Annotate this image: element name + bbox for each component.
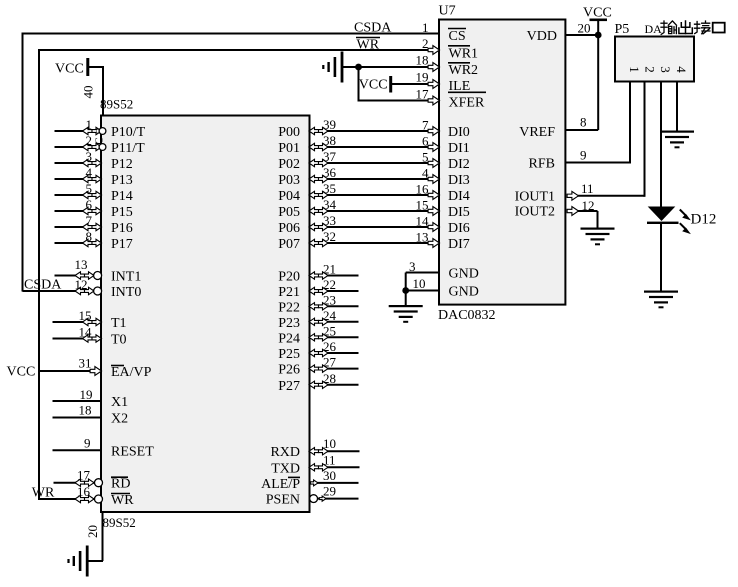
pin 3 of P5 (rotated number)	[658, 66, 673, 73]
svg-text:VCC: VCC	[583, 6, 612, 21]
svg-text:19: 19	[80, 387, 93, 402]
connector P5 body	[615, 37, 694, 82]
pin 20 of U2 to ground	[88, 512, 103, 561]
svg-text:DI0: DI0	[448, 125, 470, 140]
IC U2 89S52 body	[101, 116, 310, 513]
pin 19 ILE of U7	[416, 70, 471, 95]
pin 30 ALE/P of U2	[261, 468, 358, 492]
pin DI6 of U7	[428, 221, 470, 236]
pin 18 WR2 of U7	[416, 53, 479, 79]
svg-text:P21: P21	[278, 285, 300, 300]
pin 16 WR of U2	[39, 484, 134, 508]
svg-text:5: 5	[86, 181, 93, 196]
pin 28 P27 of U2	[278, 371, 358, 394]
label WR (top, overlined)	[356, 38, 380, 53]
svg-text:17: 17	[77, 468, 91, 483]
svg-text:34: 34	[323, 197, 337, 212]
pin 34 P05 of U2 / wire to DAC DI5	[278, 197, 439, 220]
svg-text:4: 4	[674, 66, 689, 73]
pin 11 TXD of U2	[271, 452, 359, 476]
svg-text:38: 38	[323, 133, 336, 148]
svg-text:X2: X2	[111, 412, 128, 427]
pin 17 RD of U2	[54, 468, 131, 492]
wire diode to ground	[660, 224, 662, 292]
pin 10 GND of U7	[406, 276, 479, 300]
svg-text:4: 4	[86, 165, 93, 180]
rotated artifact glyphs near pins 1-2	[94, 128, 107, 151]
svg-text:P06: P06	[278, 221, 300, 236]
pin DI1 of U7	[428, 141, 470, 156]
junction (WR2 net)	[355, 64, 362, 71]
svg-text:20: 20	[85, 525, 100, 538]
power VCC (ILE)	[359, 76, 392, 93]
ground (U7 GND)	[389, 305, 423, 323]
pin 38 P01 of U2 / wire to DAC DI1	[278, 133, 439, 156]
svg-text:P24: P24	[278, 331, 300, 346]
pin 8 VREF of U7	[519, 115, 598, 141]
svg-text:P26: P26	[278, 363, 300, 378]
pin 5 P14 of U2	[55, 181, 133, 204]
wire WR net (left vertical)	[38, 49, 40, 500]
svg-text:P27: P27	[278, 379, 300, 394]
label DAC0832	[438, 308, 496, 323]
label D12	[691, 212, 717, 228]
svg-text:P11/T: P11/T	[111, 141, 145, 156]
svg-text:5: 5	[422, 150, 429, 165]
svg-text:2: 2	[422, 36, 429, 51]
svg-text:11: 11	[581, 181, 594, 196]
ground (D12)	[644, 291, 678, 309]
svg-text:RESET: RESET	[111, 444, 154, 459]
svg-text:26: 26	[323, 339, 337, 354]
pin 21 P20 of U2	[278, 262, 358, 285]
pin 33 P06 of U2 / wire to DAC DI6	[278, 213, 439, 236]
svg-text:1: 1	[627, 66, 642, 73]
svg-text:PSEN: PSEN	[266, 493, 300, 508]
svg-text:P5: P5	[615, 22, 630, 37]
svg-text:18: 18	[79, 403, 92, 418]
svg-text:DI2: DI2	[448, 157, 470, 172]
svg-text:P04: P04	[278, 189, 300, 204]
pin 13 INT1 of U2	[55, 257, 142, 285]
LED D12	[647, 207, 679, 225]
ground (pin 20)	[67, 546, 88, 577]
pin 12 IOUT2 of U7	[515, 198, 598, 220]
pin 3 GND of U7	[406, 259, 479, 282]
svg-text:3: 3	[658, 66, 673, 73]
label 89S52 (top)	[100, 97, 133, 112]
label CSDA (left)	[24, 278, 62, 293]
svg-text:11: 11	[323, 452, 336, 467]
pin 6 P15 of U2	[55, 197, 133, 220]
pin 39 P00 of U2 / wire to DAC DI0	[278, 117, 439, 140]
svg-text:9: 9	[84, 435, 91, 450]
svg-text:40: 40	[81, 86, 96, 99]
pin number 20 (rotated)	[85, 525, 100, 538]
pin DI3 of U7	[428, 173, 470, 188]
wire CSDA net (top horizontal to DAC CS)	[23, 33, 440, 35]
svg-text:33: 33	[323, 213, 336, 228]
pin 24 P23 of U2	[278, 308, 358, 331]
svg-text:P10/T: P10/T	[111, 125, 146, 140]
svg-text:T0: T0	[111, 333, 127, 348]
label CSDA (top)	[354, 21, 392, 36]
svg-text:32: 32	[323, 229, 336, 244]
svg-text:17: 17	[416, 87, 430, 102]
pin 8 P17 of U2	[55, 229, 133, 252]
pin 9 RFB of U7	[529, 148, 630, 172]
pin 31 EA/VP of U2	[39, 356, 152, 381]
pin 1 of P5 (rotated number)	[627, 66, 642, 73]
pin 9 RESET of U2	[53, 435, 155, 459]
pin DI2 of U7	[428, 157, 470, 172]
pin DI4 of U7	[428, 189, 470, 204]
wire IOUT2 to ground	[597, 211, 599, 229]
svg-text:VCC: VCC	[359, 78, 388, 93]
wire ILE to VCC	[392, 83, 439, 85]
wire GND pins to ground	[405, 273, 407, 307]
svg-text:25: 25	[323, 323, 336, 338]
svg-text:WR: WR	[111, 493, 134, 508]
label WR (bottom left)	[32, 486, 55, 501]
pin 26 P25 of U2	[278, 339, 358, 362]
svg-text:P03: P03	[278, 173, 300, 188]
svg-text:IOUT1: IOUT1	[515, 190, 555, 205]
svg-text:GND: GND	[449, 267, 479, 282]
svg-text:IOUT2: IOUT2	[515, 205, 555, 220]
pin 2 of P5 (rotated number)	[643, 66, 658, 73]
wire P5 pin3 to diode	[660, 82, 662, 208]
pin 25 P24 of U2	[278, 323, 358, 346]
pin 19 X1 of U2	[53, 387, 129, 410]
svg-text:10: 10	[323, 436, 336, 451]
svg-text:RD: RD	[111, 477, 130, 492]
label DA	[645, 22, 663, 36]
ground (WR2/XFER)	[322, 52, 343, 83]
wire WR net (top horizontal to DAC WR1)	[39, 49, 439, 51]
svg-text:VCC: VCC	[7, 365, 36, 380]
svg-text:T1: T1	[111, 316, 127, 331]
power VCC (VDD/VREF)	[583, 6, 612, 131]
svg-text:DI4: DI4	[448, 189, 470, 204]
svg-text:6: 6	[86, 197, 93, 212]
label U7	[439, 4, 456, 19]
svg-text:D12: D12	[691, 212, 717, 228]
pin 11 IOUT1 of U7	[515, 181, 645, 205]
svg-text:INT0: INT0	[111, 285, 141, 300]
pin 4 of P5 (rotated number)	[674, 66, 689, 73]
pin 27 P26 of U2	[278, 355, 358, 378]
svg-text:30: 30	[323, 468, 336, 483]
pin 35 P04 of U2 / wire to DAC DI4	[278, 181, 439, 204]
pin DI7 of U7	[428, 237, 470, 252]
wire WR2/XFER net	[343, 67, 439, 102]
pin 3 P12 of U2	[55, 149, 133, 172]
pin 20 VDD of U7	[527, 21, 599, 45]
svg-text:WR1: WR1	[449, 47, 479, 62]
svg-text:1: 1	[86, 117, 93, 132]
svg-text:P01: P01	[278, 141, 300, 156]
pin 7 P16 of U2	[55, 213, 133, 236]
pin number 40 (rotated)	[81, 86, 96, 99]
svg-text:GND: GND	[449, 285, 479, 300]
svg-text:22: 22	[323, 277, 336, 292]
svg-text:DI1: DI1	[448, 141, 470, 156]
wire CSDA net (left vertical)	[22, 33, 24, 292]
wire P5 pin4 to ground	[676, 82, 678, 132]
svg-text:12: 12	[582, 198, 595, 213]
svg-text:TXD: TXD	[271, 461, 300, 476]
svg-text:P17: P17	[111, 237, 133, 252]
svg-text:WR: WR	[357, 38, 380, 53]
svg-text:39: 39	[323, 117, 336, 132]
pin 10 RXD of U2	[270, 436, 359, 460]
svg-text:24: 24	[323, 308, 337, 323]
pin 15 T1 of U2	[53, 308, 127, 331]
svg-text:89S52: 89S52	[103, 515, 136, 530]
svg-text:CSDA: CSDA	[354, 21, 392, 36]
svg-text:14: 14	[79, 325, 93, 340]
pin 1 CS of U7	[422, 20, 466, 44]
svg-text:7: 7	[86, 213, 93, 228]
wire P5 pin2 to IOUT1	[644, 82, 646, 197]
pin DI5 of U7	[428, 205, 470, 220]
label VCC (left of EA/VP)	[7, 365, 36, 380]
svg-text:P02: P02	[278, 157, 300, 172]
svg-text:P13: P13	[111, 173, 133, 188]
svg-text:29: 29	[323, 484, 336, 499]
svg-text:P25: P25	[278, 347, 300, 362]
junction (VDD net)	[595, 32, 602, 39]
svg-text:X1: X1	[111, 395, 128, 410]
svg-text:P16: P16	[111, 221, 133, 236]
pin 12 INT0 of U2 (wired to CSDA)	[23, 277, 142, 300]
junction (GND net)	[402, 287, 409, 294]
svg-text:P22: P22	[278, 300, 300, 315]
label P5	[615, 22, 630, 37]
svg-text:15: 15	[79, 308, 92, 323]
svg-text:DA: DA	[645, 22, 663, 36]
svg-text:21: 21	[323, 262, 336, 277]
svg-text:13: 13	[416, 230, 429, 245]
svg-text:RXD: RXD	[270, 445, 300, 460]
svg-text:XFER: XFER	[449, 96, 485, 111]
svg-text:VCC: VCC	[55, 62, 84, 77]
svg-text:INT1: INT1	[111, 270, 141, 285]
svg-text:89S52: 89S52	[100, 97, 133, 112]
svg-text:36: 36	[323, 165, 337, 180]
svg-text:16: 16	[416, 182, 430, 197]
pin 2 WR1 of U7	[422, 36, 478, 62]
pin 29 PSEN of U2	[266, 484, 359, 508]
svg-text:3: 3	[86, 149, 93, 164]
wire VCC to pin 40	[89, 66, 103, 116]
power VCC (pin 40 of U2)	[55, 58, 89, 77]
svg-text:28: 28	[323, 371, 336, 386]
svg-text:19: 19	[416, 70, 429, 85]
svg-text:DI3: DI3	[448, 173, 470, 188]
svg-text:13: 13	[75, 257, 88, 272]
pin DI0 of U7	[428, 125, 470, 140]
svg-text:DI7: DI7	[448, 237, 470, 252]
svg-text:23: 23	[323, 292, 336, 307]
svg-text:14: 14	[416, 214, 430, 229]
pin 32 P07 of U2 / wire to DAC DI7	[278, 229, 439, 252]
pin 18 X2 of U2	[53, 403, 129, 427]
label Chinese: kou	[713, 23, 725, 33]
svg-text:VDD: VDD	[527, 29, 557, 44]
svg-text:1: 1	[422, 20, 429, 35]
svg-text:37: 37	[323, 149, 337, 164]
svg-text:P00: P00	[278, 125, 300, 140]
svg-text:P14: P14	[111, 189, 133, 204]
svg-text:WR2: WR2	[449, 63, 479, 78]
LED D12 emission arrows	[680, 210, 691, 235]
label Chinese: shu	[661, 21, 677, 34]
svg-text:ALE/P: ALE/P	[261, 477, 300, 492]
pin 14 T0 of U2	[53, 325, 127, 348]
svg-text:31: 31	[79, 356, 92, 371]
pin 22 P21 of U2	[278, 277, 358, 300]
svg-text:DAC0832: DAC0832	[438, 308, 496, 323]
svg-text:EA/VP: EA/VP	[111, 365, 152, 380]
label 89S52 (bottom)	[103, 515, 136, 530]
svg-text:P05: P05	[278, 205, 300, 220]
pin 1 P10/T of U2	[55, 117, 146, 140]
svg-text:2: 2	[643, 66, 658, 73]
wire P5 pin1 to RFB	[629, 82, 631, 164]
svg-text:WR: WR	[32, 486, 55, 501]
svg-text:DI6: DI6	[448, 221, 470, 236]
pin 37 P02 of U2 / wire to DAC DI2	[278, 149, 439, 172]
pin 36 P03 of U2 / wire to DAC DI3	[278, 165, 439, 188]
svg-text:3: 3	[409, 259, 416, 274]
svg-text:16: 16	[77, 484, 91, 499]
ground (P5 pin 4)	[660, 131, 694, 149]
pin 17 XFER of U7	[416, 87, 487, 111]
pin 2 P11/T of U2	[55, 133, 146, 156]
IC U7 DAC0832 body	[439, 20, 565, 305]
pin 23 P22 of U2	[278, 292, 358, 315]
svg-text:P20: P20	[278, 270, 300, 285]
svg-text:CS: CS	[449, 29, 466, 44]
svg-text:27: 27	[323, 355, 337, 370]
svg-text:12: 12	[75, 277, 88, 292]
svg-text:CSDA: CSDA	[24, 278, 62, 293]
svg-text:P15: P15	[111, 205, 133, 220]
label Chinese: jie	[695, 21, 710, 34]
pin 4 P13 of U2	[55, 165, 133, 188]
svg-text:8: 8	[580, 115, 587, 130]
svg-text:DI5: DI5	[448, 205, 470, 220]
svg-text:35: 35	[323, 181, 336, 196]
svg-text:9: 9	[580, 148, 587, 163]
svg-text:18: 18	[416, 53, 429, 68]
svg-text:2: 2	[86, 133, 93, 148]
svg-text:P12: P12	[111, 157, 133, 172]
svg-text:8: 8	[86, 229, 93, 244]
ground (IOUT2)	[581, 228, 615, 246]
svg-text:20: 20	[578, 21, 591, 36]
label Chinese: chu	[679, 21, 692, 34]
svg-text:15: 15	[416, 198, 429, 213]
svg-text:RFB: RFB	[529, 157, 555, 172]
svg-text:P07: P07	[278, 237, 300, 252]
svg-text:P23: P23	[278, 316, 300, 331]
svg-text:VREF: VREF	[519, 125, 555, 140]
svg-text:10: 10	[413, 276, 426, 291]
svg-text:U7: U7	[439, 4, 456, 19]
